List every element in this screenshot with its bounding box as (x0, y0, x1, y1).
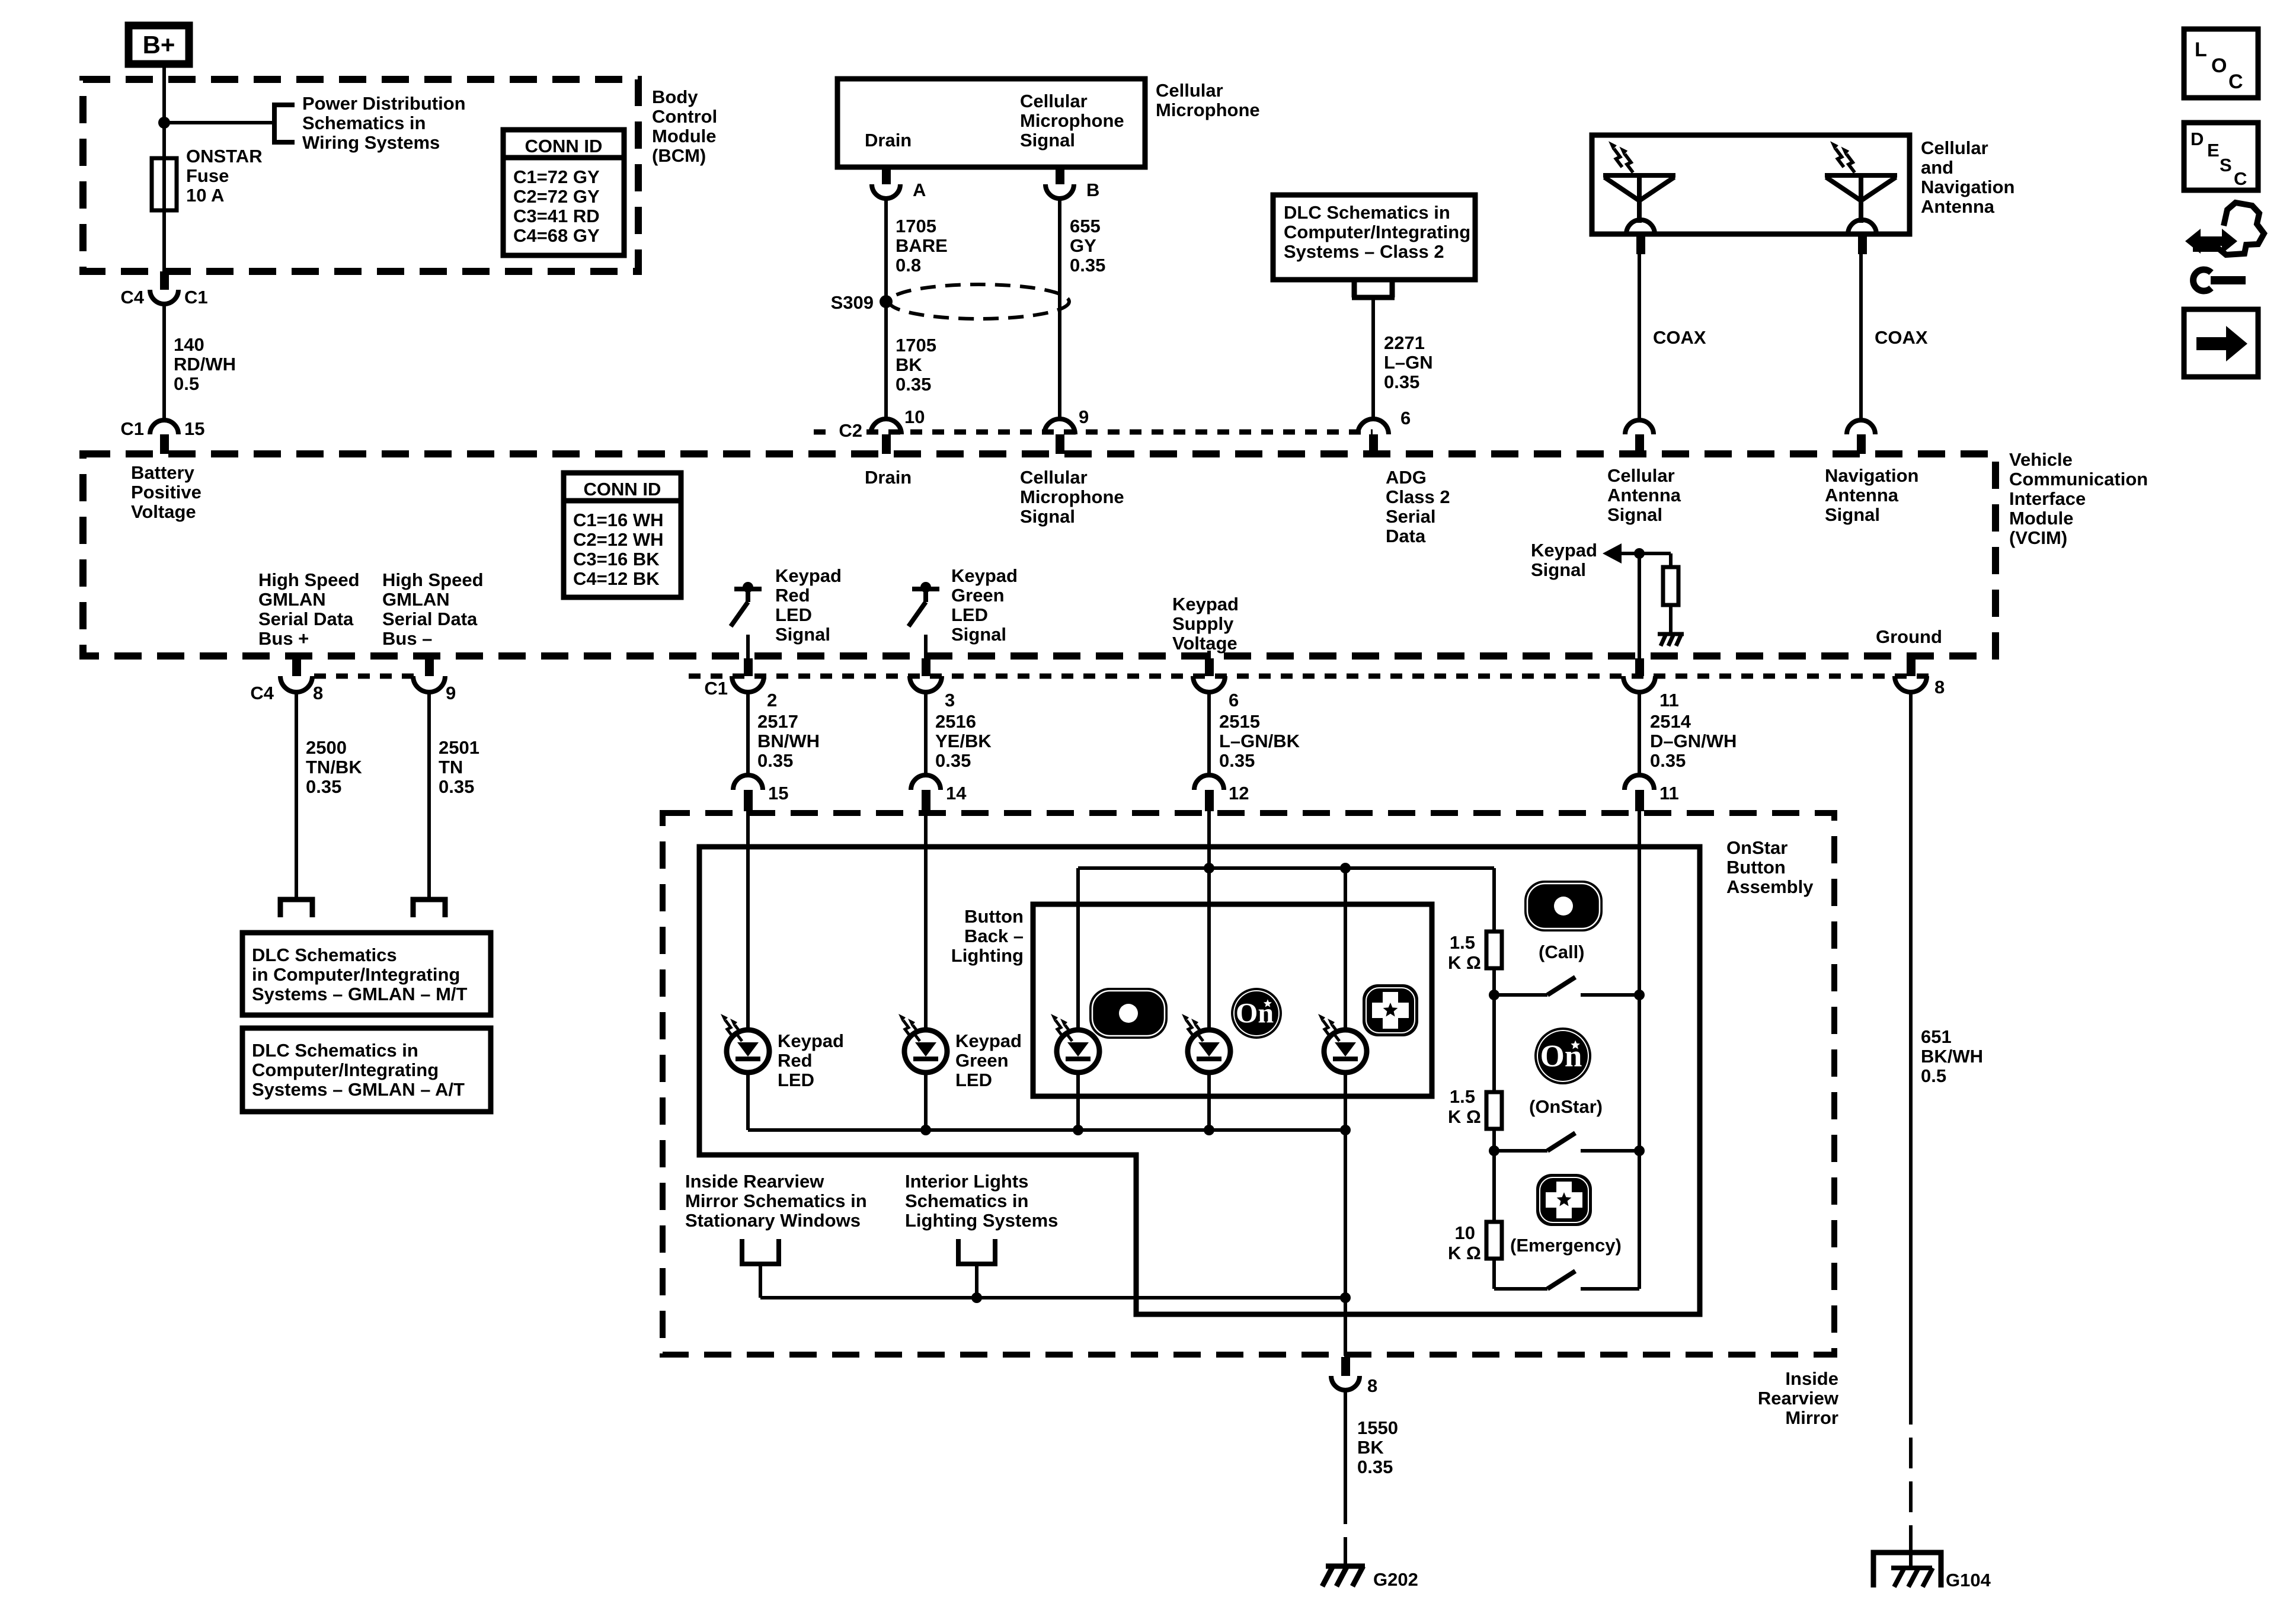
svg-text:Microphone: Microphone (1020, 486, 1124, 507)
svg-text:Module: Module (2009, 508, 2074, 529)
svg-text:in Computer/Integrating: in Computer/Integrating (252, 964, 460, 985)
svg-text:and: and (1921, 157, 1953, 178)
svg-text:Stationary Windows: Stationary Windows (685, 1210, 861, 1231)
svg-text:C1: C1 (184, 287, 208, 308)
svg-text:Signal: Signal (1020, 506, 1075, 527)
ground G104 (1873, 1553, 1941, 1587)
wire keypad green LED feed (924, 810, 928, 1030)
svg-text:12: 12 (1229, 783, 1249, 804)
svg-text:DLC Schematics in: DLC Schematics in (252, 1040, 418, 1061)
connector pin 9 (1044, 419, 1075, 434)
connector cellular antenna signal (1625, 420, 1654, 434)
antenna box connector cellular (1626, 220, 1655, 234)
node backlight return to ground lead (1340, 1292, 1351, 1303)
svg-text:E: E (2207, 140, 2220, 161)
svg-text:Antenna: Antenna (1607, 485, 1681, 505)
svg-text:Mirror: Mirror (1785, 1407, 1838, 1428)
svg-text:15: 15 (768, 783, 788, 804)
svg-text:10 A: 10 A (186, 185, 224, 206)
svg-text:BN/WH: BN/WH (757, 731, 820, 751)
svg-text:C1: C1 (120, 418, 144, 439)
svg-text:Signal: Signal (775, 624, 830, 645)
left resistor rail from top (1492, 868, 1496, 932)
svg-text:0.5: 0.5 (1921, 1065, 1946, 1086)
backlight LED3 (1324, 1030, 1367, 1073)
svg-text:Rearview: Rearview (1758, 1388, 1839, 1409)
svg-text:Systems – Class 2: Systems – Class 2 (1284, 241, 1444, 262)
COAX wire cellular (1638, 254, 1641, 420)
fine dotted connector line C2 row (866, 430, 1373, 435)
svg-text:Assembly: Assembly (1726, 876, 1814, 897)
bracket to Power Distribution Schematics (274, 105, 295, 142)
onstar switch blade (1547, 1133, 1575, 1151)
CONN ID table of BCM (503, 130, 624, 255)
wire keypad supply into backlight bus (1207, 810, 1211, 1030)
svg-text:DLC Schematics in: DLC Schematics in (1284, 202, 1450, 223)
svg-text:Battery: Battery (131, 462, 195, 483)
svg-text:Cellular: Cellular (1020, 467, 1088, 488)
resistor 10K emergency (1486, 1222, 1502, 1259)
svg-text:0.35: 0.35 (935, 750, 971, 771)
svg-text:11: 11 (1659, 783, 1679, 804)
node LED2 to bus (1204, 1125, 1214, 1135)
fuse ONSTAR 10A (152, 158, 177, 210)
connector C1 pin 15 at VCIM (150, 420, 178, 434)
svg-text:Interface: Interface (2009, 488, 2086, 509)
svg-text:0.35: 0.35 (757, 750, 793, 771)
svg-text:14: 14 (946, 783, 967, 804)
svg-text:0.5: 0.5 (174, 373, 199, 394)
bracket inside rearview mirror (742, 1239, 779, 1264)
svg-text:0.35: 0.35 (1219, 750, 1255, 771)
OnStar button assembly dashed box (663, 813, 1834, 1355)
svg-text:Fuse: Fuse (186, 165, 229, 186)
wire 655 GY microphone signal (1058, 197, 1061, 420)
emergency button icon (1536, 1174, 1592, 1226)
wire 2517 BN/WH (746, 692, 750, 775)
ground symbol inside VCIM (1658, 634, 1684, 646)
resistor 1.5K call (1486, 932, 1502, 968)
svg-text:TN/BK: TN/BK (306, 757, 362, 777)
svg-text:Ground: Ground (1876, 626, 1942, 647)
svg-text:L: L (2195, 39, 2207, 61)
svg-text:1550: 1550 (1357, 1417, 1398, 1438)
wire 2501 TN GMLAN bus - (427, 692, 431, 900)
wire 2514 D-GN/WH (1638, 692, 1641, 775)
OnStar logo backlight (1231, 988, 1282, 1039)
svg-text:OnStar: OnStar (1726, 837, 1787, 858)
svg-text:1.5: 1.5 (1450, 1086, 1475, 1107)
node onstar switch to keypad signal rail (1634, 1145, 1645, 1156)
node junction on B+ feed (158, 117, 170, 129)
svg-text:Cellular: Cellular (1020, 91, 1088, 111)
svg-text:(Call): (Call) (1539, 942, 1585, 962)
svg-text:C2=12 WH: C2=12 WH (573, 529, 663, 550)
svg-text:CONN ID: CONN ID (525, 136, 603, 156)
svg-text:Button: Button (964, 906, 1024, 927)
wire from B+ into BCM (162, 64, 166, 274)
svg-text:C2: C2 (839, 420, 862, 441)
inline connector pin 14 (911, 775, 941, 790)
DLC schematics GMLAN M/T box (242, 933, 491, 1015)
svg-text:Lighting: Lighting (951, 945, 1024, 966)
keypad red LED (727, 1030, 769, 1073)
svg-text:Class 2: Class 2 (1386, 486, 1450, 507)
splice S309 (880, 295, 893, 308)
svg-text:8: 8 (313, 683, 323, 703)
svg-text:Red: Red (775, 585, 810, 606)
svg-text:Keypad: Keypad (775, 565, 842, 586)
svg-text:K: K (1448, 1243, 1462, 1263)
svg-text:L–GN: L–GN (1384, 352, 1433, 373)
connector pin 6 (1358, 419, 1389, 434)
svg-text:2515: 2515 (1219, 711, 1260, 732)
connector C2 pin 10 (871, 419, 901, 434)
assembly ground connector pin 8 (1341, 1357, 1350, 1376)
svg-text:DLC Schematics: DLC Schematics (252, 945, 397, 965)
svg-text:Interior Lights: Interior Lights (905, 1171, 1028, 1192)
svg-text:Keypad: Keypad (955, 1030, 1022, 1051)
svg-text:O: O (2211, 55, 2227, 77)
svg-text:LED: LED (955, 1070, 992, 1090)
pullup resistor inside VCIM (1669, 553, 1673, 567)
button back-lighting box (1033, 904, 1432, 1096)
ground G202 (1322, 1566, 1365, 1586)
emergency switch blade (1547, 1271, 1575, 1289)
svg-text:Systems – GMLAN – A/T: Systems – GMLAN – A/T (252, 1079, 465, 1100)
svg-text:Cellular: Cellular (1921, 137, 1988, 158)
svg-text:BK/WH: BK/WH (1921, 1046, 1983, 1067)
svg-text:C4: C4 (250, 683, 274, 703)
svg-text:651: 651 (1921, 1026, 1952, 1047)
connector pin A of microphone (882, 167, 891, 184)
emergency cross icon backlight (1363, 984, 1418, 1036)
svg-text:1.5: 1.5 (1450, 932, 1475, 953)
svg-text:2: 2 (767, 690, 777, 710)
svg-text:C4=12 BK: C4=12 BK (573, 568, 660, 589)
icon wrench and arrows (2185, 203, 2264, 291)
svg-text:Supply: Supply (1172, 613, 1234, 634)
keypad green LED signal driver symbol (909, 589, 939, 626)
VCIM bottom connector pin 6 (1205, 658, 1214, 676)
svg-text:6: 6 (1229, 690, 1239, 710)
svg-text:11: 11 (1659, 690, 1679, 710)
connector pin B of microphone (1056, 167, 1064, 184)
wire 2500 TN/BK GMLAN bus + (295, 692, 298, 900)
VCIM bottom connector pin 3 (922, 658, 930, 676)
svg-text:LED: LED (775, 604, 812, 625)
svg-text:K: K (1448, 1106, 1462, 1127)
svg-text:0.35: 0.35 (306, 776, 341, 797)
svg-text:Computer/Integrating: Computer/Integrating (252, 1060, 439, 1080)
svg-text:(BCM): (BCM) (652, 145, 706, 166)
svg-text:Bus –: Bus – (382, 628, 432, 649)
svg-text:COAX: COAX (1653, 327, 1706, 348)
svg-text:Schematics in: Schematics in (302, 113, 426, 133)
svg-text:140: 140 (174, 334, 204, 355)
svg-text:10: 10 (904, 406, 925, 427)
svg-text:Power Distribution: Power Distribution (302, 93, 466, 114)
svg-text:Body: Body (652, 87, 698, 107)
svg-text:C4: C4 (120, 287, 144, 308)
svg-text:Signal: Signal (1607, 504, 1662, 525)
svg-text:Green: Green (955, 1050, 1009, 1071)
svg-text:Signal: Signal (1531, 559, 1586, 580)
connector C4-C1 at BCM output (160, 271, 169, 290)
svg-text:Microphone: Microphone (1156, 100, 1260, 120)
svg-text:YE/BK: YE/BK (935, 731, 992, 751)
icon DESC box (2184, 123, 2258, 190)
node interior lights tap (971, 1292, 982, 1303)
svg-text:0.35: 0.35 (1070, 255, 1105, 276)
bracket to DLC GMLAN A/T (413, 900, 445, 917)
svg-text:Keypad: Keypad (778, 1030, 844, 1051)
svg-text:Control: Control (652, 106, 717, 127)
fine dotted connector line C4 row (314, 674, 415, 679)
LED cathode bus (748, 1128, 1345, 1132)
svg-text:BK: BK (1357, 1437, 1384, 1458)
svg-text:Module: Module (652, 126, 717, 146)
svg-text:(OnStar): (OnStar) (1529, 1096, 1603, 1117)
svg-text:Navigation: Navigation (1825, 465, 1918, 486)
svg-text:C1=16 WH: C1=16 WH (573, 510, 663, 530)
svg-text:A: A (913, 180, 926, 200)
call button icon (1524, 881, 1603, 932)
svg-text:C3=41 RD: C3=41 RD (513, 206, 600, 226)
svg-text:9: 9 (1079, 406, 1089, 427)
wire 2515 L-GN/BK (1207, 692, 1211, 775)
svg-text:Button: Button (1726, 857, 1786, 878)
node green LED to bus (920, 1125, 931, 1135)
svg-text:655: 655 (1070, 216, 1101, 236)
wire branch to power distribution bracket (164, 121, 274, 124)
icon arrow box (2184, 309, 2258, 377)
keypad red LED signal driver symbol (731, 589, 762, 626)
svg-text:Serial Data: Serial Data (382, 609, 478, 629)
svg-text:GY: GY (1070, 235, 1096, 256)
svg-text:BK: BK (896, 354, 922, 375)
svg-text:Positive: Positive (131, 482, 202, 502)
wire 651 BK/WH ground lead (1909, 692, 1913, 1394)
svg-text:S309: S309 (831, 292, 874, 313)
resistor 1.5K onstar (1486, 1092, 1502, 1129)
inner assembly outline box (699, 847, 1700, 1314)
node keypad signal junction (1634, 548, 1645, 559)
svg-text:Ω: Ω (1466, 1243, 1481, 1263)
svg-text:High Speed: High Speed (382, 569, 484, 590)
svg-text:Vehicle: Vehicle (2009, 449, 2073, 470)
svg-text:0.35: 0.35 (1650, 750, 1686, 771)
svg-text:GMLAN: GMLAN (382, 589, 450, 610)
svg-text:C: C (2228, 71, 2243, 93)
svg-text:D–GN/WH: D–GN/WH (1650, 731, 1737, 751)
inline connector pin 12 (1194, 775, 1224, 790)
svg-text:0.35: 0.35 (439, 776, 474, 797)
svg-text:8: 8 (1934, 677, 1945, 697)
navigation antenna symbol (1825, 175, 1897, 223)
B+ battery feed symbol (129, 25, 189, 64)
svg-text:2271: 2271 (1384, 332, 1425, 353)
cellular antenna symbol (1603, 175, 1675, 223)
svg-text:COAX: COAX (1875, 327, 1928, 348)
wire 140 RD/WH (162, 303, 166, 420)
svg-text:2516: 2516 (935, 711, 976, 732)
inline connector pin 15 (733, 775, 763, 790)
svg-text:BARE: BARE (896, 235, 948, 256)
svg-text:Serial Data: Serial Data (258, 609, 354, 629)
svg-text:Signal: Signal (1020, 130, 1075, 151)
keypad signal rail right side (1638, 810, 1641, 1289)
svg-text:C1=72 GY: C1=72 GY (513, 167, 600, 187)
svg-text:2514: 2514 (1650, 711, 1691, 732)
wire keypad red LED feed (746, 810, 750, 1030)
svg-text:Communication: Communication (2009, 469, 2148, 489)
wire 2271 L-GN class 2 serial data (1371, 297, 1375, 420)
VCIM bottom connector pin 9 (425, 658, 434, 676)
svg-text:Data: Data (1386, 526, 1426, 546)
svg-text:L–GN/BK: L–GN/BK (1219, 731, 1300, 751)
onstar switch rail (1489, 1145, 1499, 1156)
svg-text:ONSTAR: ONSTAR (186, 146, 263, 167)
svg-text:RD/WH: RD/WH (174, 354, 236, 375)
svg-text:Red: Red (778, 1050, 813, 1071)
svg-text:Signal: Signal (1825, 504, 1880, 525)
backlight top rail (1078, 866, 1494, 870)
wire 2516 YE/BK (924, 692, 928, 775)
wire 1705 BARE drain (884, 197, 888, 420)
svg-text:C2=72 GY: C2=72 GY (513, 186, 600, 207)
svg-text:Antenna: Antenna (1921, 196, 1995, 217)
COAX wire navigation (1859, 254, 1863, 420)
svg-text:LED: LED (951, 604, 988, 625)
DLC schematics GMLAN A/T box (242, 1028, 491, 1112)
svg-text:10: 10 (1455, 1222, 1475, 1243)
wire 1550 BK (1344, 1390, 1347, 1493)
svg-text:0.35: 0.35 (1357, 1457, 1393, 1477)
svg-text:Ω: Ω (1466, 952, 1481, 973)
svg-text:Schematics in: Schematics in (905, 1190, 1028, 1211)
vehicle communication interface module VCIM dashed box (83, 454, 1996, 656)
backlight LED3 wire (1344, 868, 1347, 1030)
svg-text:0.35: 0.35 (1384, 372, 1419, 392)
svg-text:Navigation: Navigation (1921, 177, 2014, 197)
svg-text:Signal: Signal (951, 624, 1006, 645)
svg-text:C4=68 GY: C4=68 GY (513, 225, 600, 246)
svg-text:0.8: 0.8 (896, 255, 921, 276)
svg-text:Keypad: Keypad (1172, 594, 1239, 614)
svg-text:Lighting Systems: Lighting Systems (905, 1210, 1058, 1231)
wire between onstar and emergency resistors (1492, 1151, 1496, 1222)
svg-text:Serial: Serial (1386, 506, 1435, 527)
call switch rail (1489, 990, 1499, 1000)
svg-text:9: 9 (446, 683, 456, 703)
svg-text:Voltage: Voltage (1172, 633, 1237, 654)
cellular microphone box (837, 79, 1145, 167)
svg-text:TN: TN (439, 757, 463, 777)
svg-text:1705: 1705 (896, 216, 936, 236)
svg-text:Keypad: Keypad (951, 565, 1018, 586)
emergency switch rail (1494, 1287, 1547, 1291)
bracket to DLC GMLAN M/T (280, 900, 312, 917)
DLC schematics class 2 reference box (1273, 195, 1475, 280)
svg-text:C3=16 BK: C3=16 BK (573, 549, 660, 569)
antenna box connector navigation (1848, 220, 1876, 234)
svg-text:ADG: ADG (1386, 467, 1427, 488)
svg-text:LED: LED (778, 1070, 814, 1090)
svg-text:Voltage: Voltage (131, 501, 196, 522)
cellular and navigation antenna box (1592, 135, 1910, 234)
OnStar button icon (1534, 1028, 1591, 1084)
inline connector pin 11 (1625, 775, 1654, 790)
svg-text:G202: G202 (1373, 1569, 1418, 1590)
svg-text:Inside: Inside (1785, 1368, 1838, 1389)
VCIM bottom connector C4 pin 8 (292, 658, 301, 676)
svg-text:Cellular: Cellular (1156, 80, 1223, 101)
icon LOC box (2184, 29, 2258, 98)
svg-text:Green: Green (951, 585, 1005, 606)
backlight LED2 (1188, 1030, 1230, 1073)
node LED3 to bus (1340, 1125, 1351, 1135)
keypad green LED (904, 1030, 947, 1073)
svg-text:D: D (2191, 129, 2204, 149)
svg-text:Drain: Drain (865, 130, 912, 151)
bracket under DLC box (1352, 282, 1395, 297)
svg-text:6: 6 (1400, 408, 1411, 428)
svg-text:C: C (2234, 168, 2247, 189)
svg-text:2500: 2500 (306, 737, 347, 758)
dashed shield ellipse around S309 (889, 284, 1069, 319)
node LED1 to bus (1073, 1125, 1083, 1135)
svg-text:Wiring Systems: Wiring Systems (302, 132, 440, 153)
svg-text:3: 3 (945, 690, 955, 710)
svg-text:S: S (2220, 155, 2232, 175)
svg-text:K: K (1448, 952, 1462, 973)
svg-text:Microphone: Microphone (1020, 110, 1124, 131)
svg-text:G104: G104 (1946, 1570, 1991, 1590)
svg-text:Computer/Integrating: Computer/Integrating (1284, 222, 1470, 242)
CONN ID table of VCIM (564, 473, 681, 597)
connector navigation antenna signal (1847, 420, 1875, 434)
svg-text:(Emergency): (Emergency) (1510, 1235, 1622, 1256)
svg-text:Cellular: Cellular (1607, 465, 1675, 486)
svg-text:2501: 2501 (439, 737, 479, 758)
svg-text:8: 8 (1367, 1375, 1377, 1396)
backlight return bus (760, 1296, 1345, 1299)
node supply to backlight top rail (1204, 863, 1214, 873)
svg-text:High Speed: High Speed (258, 569, 360, 590)
svg-text:0.35: 0.35 (896, 374, 931, 395)
backlight LED1 wire (1076, 868, 1080, 1030)
svg-text:B+: B+ (143, 31, 175, 59)
bracket interior lights (958, 1239, 995, 1264)
svg-text:Mirror Schematics in: Mirror Schematics in (685, 1190, 867, 1211)
svg-text:C1: C1 (704, 678, 728, 699)
svg-text:Systems – GMLAN – M/T: Systems – GMLAN – M/T (252, 984, 468, 1004)
svg-text:Bus +: Bus + (258, 628, 309, 649)
VCIM bottom connector C1 pin 2 (744, 658, 753, 676)
keypad signal arrow (1603, 543, 1622, 564)
svg-text:Antenna: Antenna (1825, 485, 1899, 505)
svg-text:GMLAN: GMLAN (258, 589, 326, 610)
backlight LED1 (1057, 1030, 1099, 1073)
node call switch to keypad signal rail (1634, 990, 1645, 1000)
body control module BCM dashed box (83, 79, 638, 271)
svg-text:Ω: Ω (1466, 1106, 1481, 1127)
VCIM bottom connector pin 11 (1635, 658, 1644, 676)
svg-text:CONN ID: CONN ID (584, 479, 661, 500)
svg-text:1705: 1705 (896, 335, 936, 356)
svg-text:(VCIM): (VCIM) (2009, 527, 2067, 548)
